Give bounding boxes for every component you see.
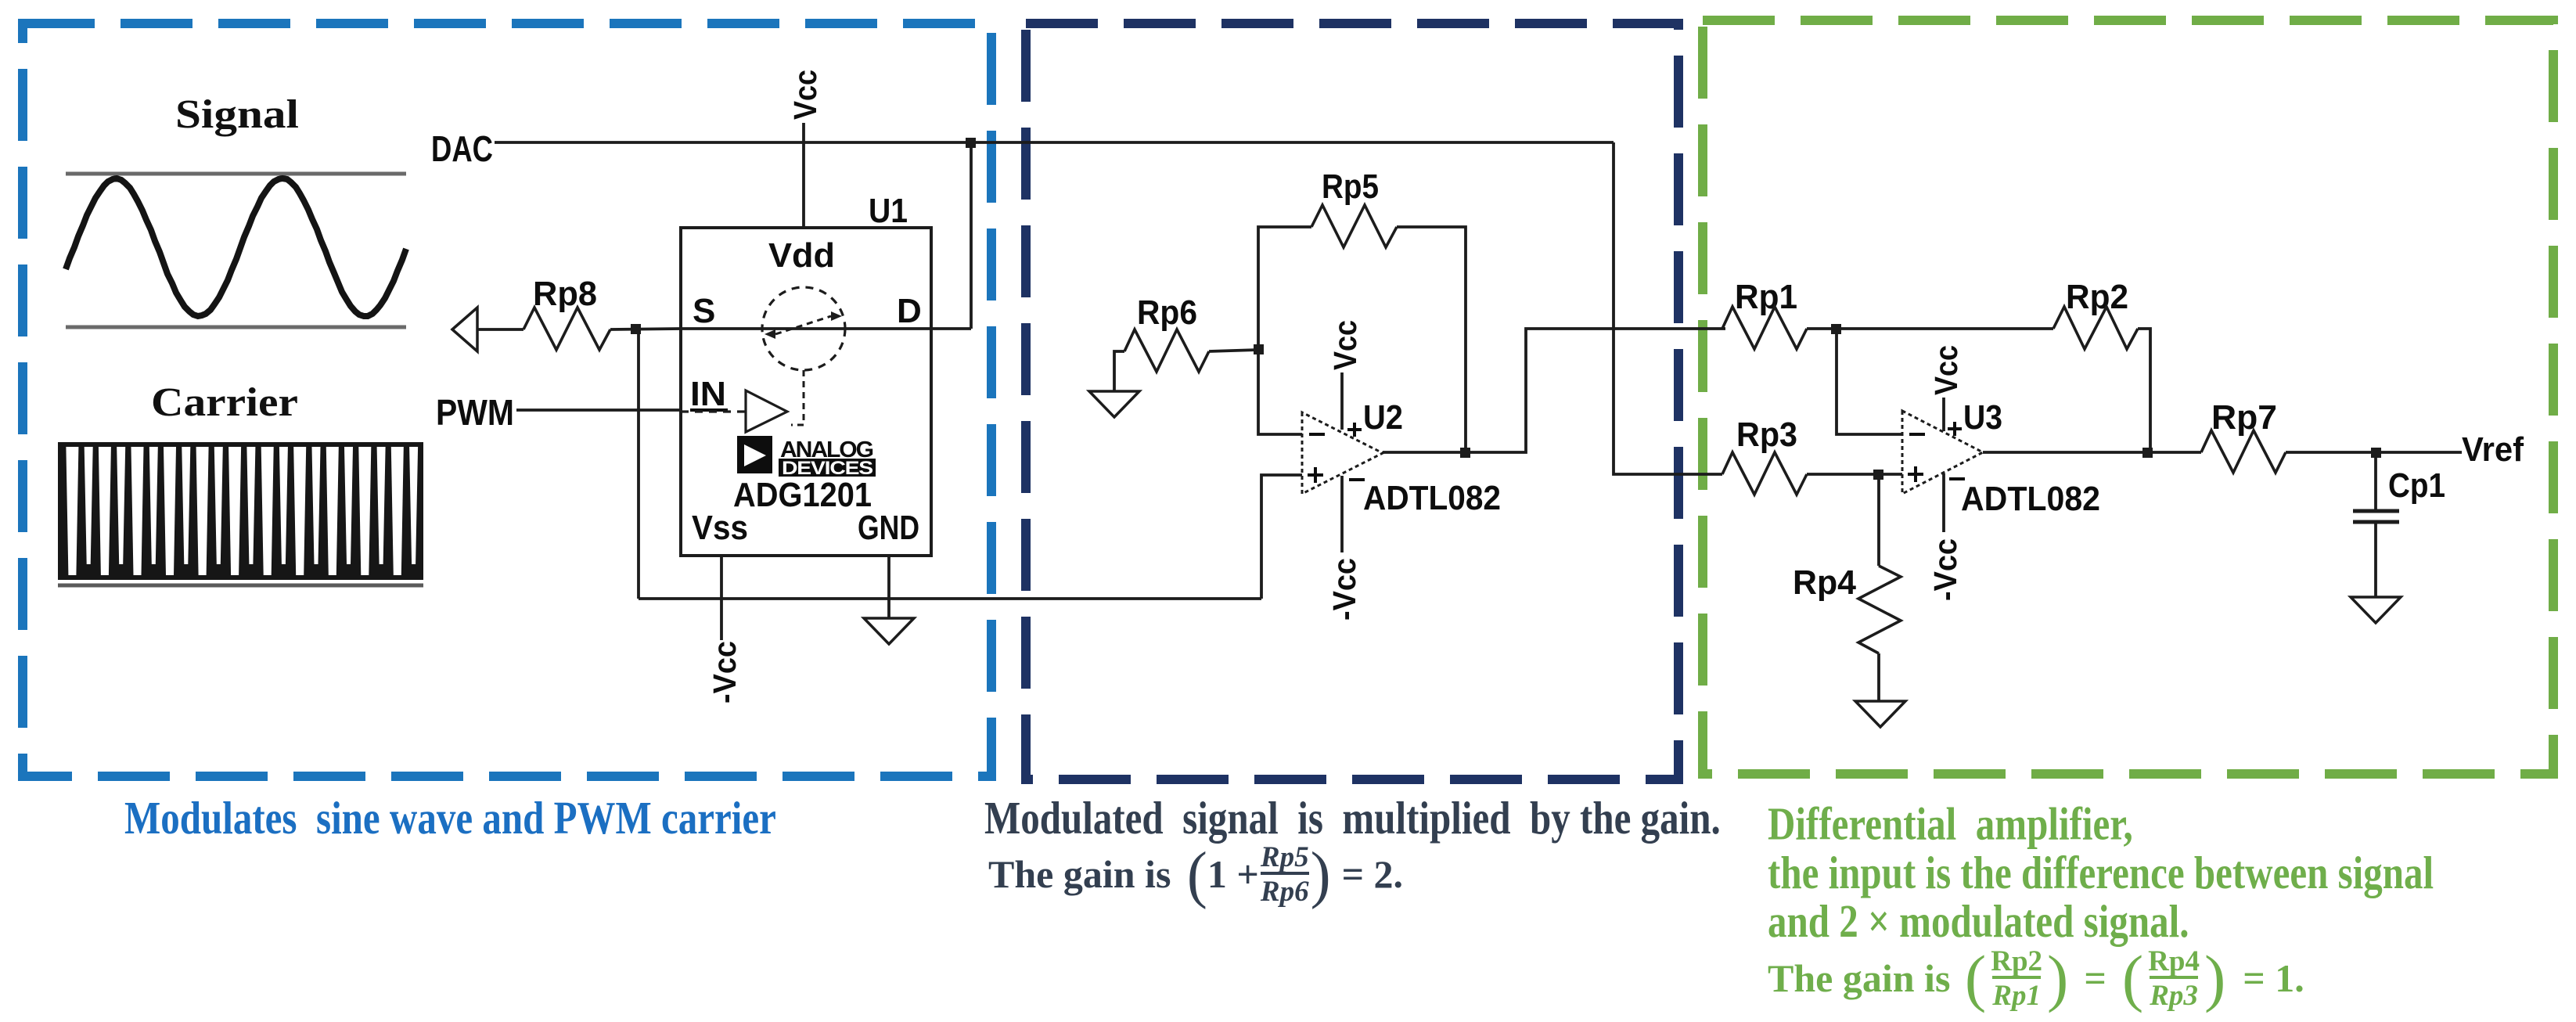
svg-text:Rp5: Rp5 (1322, 167, 1379, 206)
svg-text:Rp6: Rp6 (1137, 293, 1197, 332)
svg-text:ADG1201: ADG1201 (733, 476, 872, 514)
wire Rp7 to Vref (2286, 451, 2462, 454)
resistor Rp5 (1311, 205, 1397, 247)
svg-text:Rp1: Rp1 (1735, 278, 1797, 316)
wire Rp5 loop left (1258, 227, 1311, 434)
svg-text:Vss: Vss (692, 509, 748, 547)
caption: gain stage line 1 (dark) (984, 791, 1721, 844)
wire Rp2 right down (2138, 329, 2150, 452)
caption: gain stage formula (dark) (988, 839, 1403, 909)
wire GND down (887, 556, 890, 618)
junction dot U3 out (2142, 448, 2153, 458)
svg-text:-Vcc: -Vcc (1326, 558, 1362, 621)
svg-text:Vcc: Vcc (1327, 320, 1363, 370)
ground symbol Rp6 (1089, 391, 1139, 417)
wire DAC down to Rp3 (1614, 142, 1722, 474)
resistor Rp1 (1722, 307, 1807, 349)
U2 supply minus mark (1349, 478, 1365, 481)
wire up to U2 + (1261, 475, 1302, 599)
op-amp U3 triangle (1902, 411, 1983, 494)
wire Rp8 to S node (610, 329, 681, 329)
wire Rp5 loop right (1397, 227, 1466, 452)
wire Rp1 node down to U3 - (1837, 329, 1902, 434)
svg-text:U3: U3 (1963, 398, 2002, 437)
region box: gain stage (navy dashed) (1026, 23, 1678, 779)
wire Rp6 left to ground (1114, 351, 1124, 391)
svg-text:Rp4: Rp4 (1793, 563, 1857, 602)
svg-text:PWM: PWM (436, 392, 514, 433)
op-amp U2 triangle (1302, 412, 1383, 494)
junction dot Vref node (2371, 448, 2381, 458)
wire D to DAC (vertical) (970, 142, 973, 329)
svg-text:S: S (693, 292, 715, 330)
resistor Rp3 (1722, 452, 1807, 495)
svg-text:Vcc: Vcc (1928, 345, 1964, 395)
signal sine wave image (66, 172, 406, 176)
region box: modulator (light blue dashed) (23, 23, 991, 776)
wire S node down (637, 329, 640, 599)
wire Vcc to Vdd (802, 123, 805, 228)
Analog Devices logo (737, 436, 772, 473)
resistor Rp4 (vertical) (1858, 566, 1901, 653)
wire U2 output (1383, 329, 1725, 452)
svg-text:Carrier: Carrier (151, 380, 298, 425)
wire Vcc U3 (1942, 398, 1945, 431)
svg-text:IN: IN (690, 375, 726, 413)
resistor Rp6 (1124, 329, 1209, 372)
U2 minus input mark (1309, 433, 1325, 436)
U3 supply minus mark (1949, 477, 1965, 480)
svg-text:D: D (897, 292, 922, 330)
switch control stem (dashed) (791, 370, 804, 425)
wire Vss down (720, 556, 723, 640)
ground symbol Rp4 (1855, 701, 1905, 727)
IN buffer triangle (746, 390, 787, 432)
svg-text:Rp8: Rp8 (533, 275, 597, 313)
resistor Rp2 (2053, 307, 2138, 349)
carrier PWM image (58, 442, 423, 580)
switch arm (775, 316, 831, 334)
capacitor Cp1 (2374, 452, 2377, 509)
junction dot U2 out (1460, 448, 1470, 458)
U2 plus input mark (1308, 473, 1323, 477)
wire Rp3 node down (1877, 474, 1880, 566)
svg-text:-Vcc: -Vcc (1927, 538, 1963, 601)
svg-text:Vdd: Vdd (768, 236, 835, 275)
svg-text:Vcc: Vcc (787, 70, 823, 120)
wire IN dashed (681, 410, 746, 412)
wire Vcc U2 (1340, 372, 1344, 430)
svg-text:ADTL082: ADTL082 (1363, 479, 1501, 517)
wire Rp4 to ground (1877, 653, 1880, 701)
svg-text:Cp1: Cp1 (2388, 466, 2445, 505)
svg-text:ADTL082: ADTL082 (1961, 480, 2100, 518)
switch circle (dashed) (762, 287, 845, 370)
svg-text:-Vcc: -Vcc (707, 641, 743, 704)
caption: diff amp formula (green) (1768, 943, 2304, 1013)
U3 supply plus mark (1948, 427, 1962, 430)
ground symbol Cp1 (2351, 597, 2401, 623)
wire U3 output (1983, 451, 2201, 454)
wire Rp1 to Rp2 (1807, 327, 2053, 330)
svg-text:Rp7: Rp7 (2211, 398, 2277, 437)
svg-text:U2: U2 (1363, 398, 1403, 437)
svg-text:Signal: Signal (175, 92, 299, 137)
junction dot S node (631, 324, 641, 334)
svg-text:Rp2: Rp2 (2066, 278, 2128, 316)
svg-text:Rp3: Rp3 (1736, 416, 1797, 454)
junction dot Rp6 node (1254, 344, 1264, 354)
junction dot Rp3 node (1873, 470, 1883, 480)
wire -Vcc U2 (1340, 476, 1344, 552)
caption: modulator section (blue) (124, 791, 776, 844)
U3 plus input mark (1908, 473, 1923, 476)
wire Rp6 right (1209, 350, 1258, 351)
svg-text:DEVICES: DEVICES (782, 458, 873, 479)
junction dot DAC-D (966, 138, 976, 148)
svg-text:GND: GND (858, 509, 919, 547)
svg-text:DAC: DAC (431, 128, 493, 169)
wire arrow to Rp8 (477, 328, 523, 331)
junction dot Rp1 node (1831, 324, 1841, 334)
wire S node to U2 + (long horizontal) (639, 597, 1261, 600)
U2 supply plus mark (1347, 428, 1362, 431)
region box: differential amplifier (green dashed) (1703, 20, 2553, 774)
svg-text:Vref: Vref (2462, 430, 2524, 469)
wire -Vcc U3 (1942, 473, 1945, 532)
caption: diff amp line 1 (green) (1768, 800, 2434, 946)
wire S-D through chip (681, 327, 971, 330)
wire PWM to IN (516, 408, 681, 412)
svg-text:U1: U1 (869, 192, 908, 230)
IC U1 body (681, 228, 931, 556)
wire Rp3 to U3 + (1807, 473, 1902, 476)
U3 minus input mark (1909, 433, 1925, 436)
resistor Rp7 (2201, 430, 2286, 473)
resistor Rp8 (523, 308, 610, 350)
wire DAC horizontal (495, 141, 1614, 144)
ground symbol U1 GND (864, 618, 914, 644)
arrow connector left of Rp8 (452, 308, 477, 351)
